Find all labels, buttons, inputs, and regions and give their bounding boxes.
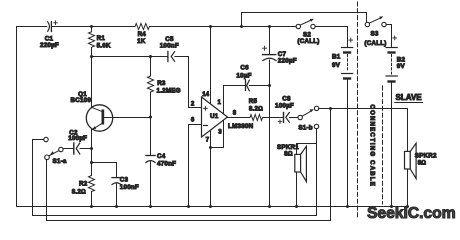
- svg-text:220µF: 220µF: [40, 42, 59, 49]
- svg-text:100nF: 100nF: [160, 43, 179, 50]
- node R2 ground: [90, 205, 93, 208]
- wire slave signal: [319, 109, 408, 152]
- battery B1 9V: [332, 38, 353, 206]
- connecting cable label: [369, 105, 376, 188]
- capacitor C1: [40, 21, 59, 49]
- switch S1-b: [298, 106, 319, 131]
- switch S1-a: [44, 137, 67, 165]
- wire S1-a top contact to line B: [33, 140, 317, 216]
- svg-text:(CALL): (CALL): [364, 40, 386, 47]
- node SPKR2 ground: [406, 205, 409, 208]
- resistor R1 5.6K: [89, 27, 111, 57]
- wire second rail to C5: [92, 56, 168, 58]
- node C3 ground: [115, 205, 118, 208]
- node slave junction: [329, 107, 332, 110]
- wire S1-a pole to line C: [47, 109, 331, 221]
- svg-text:R2: R2: [79, 181, 88, 188]
- svg-text:SPKR2: SPKR2: [415, 153, 437, 160]
- connecting cable dashed boundary right: [382, 86, 384, 204]
- svg-text:8Ω: 8Ω: [418, 160, 427, 167]
- pin 2 label: [191, 100, 195, 107]
- svg-text:U1: U1: [210, 113, 219, 120]
- node B2 ground: [390, 205, 393, 208]
- svg-text:S1-b: S1-b: [298, 125, 312, 132]
- svg-text:8.2Ω: 8.2Ω: [249, 105, 263, 112]
- svg-text:R5: R5: [249, 98, 258, 105]
- node C6 to C7 vertical: [268, 84, 271, 87]
- wire top rail left segment: [17, 26, 47, 28]
- svg-text:9V: 9V: [332, 62, 341, 69]
- wire output pin 8: [228, 117, 251, 119]
- wire pin 6 to ground: [189, 125, 202, 207]
- capacitor C8 100uF: [275, 95, 298, 123]
- wire top rail from C1 to R4: [52, 26, 135, 28]
- svg-text:R1: R1: [97, 35, 106, 42]
- svg-text:C8: C8: [282, 95, 291, 102]
- svg-text:C6: C6: [240, 65, 249, 72]
- pin 7 label: [206, 137, 210, 144]
- svg-text:1.2MEG: 1.2MEG: [157, 88, 181, 95]
- capacitor C3 100nF: [92, 163, 139, 207]
- pin 1 label: [218, 99, 222, 106]
- svg-text:10µF: 10µF: [236, 73, 251, 80]
- node emitter / C2: [90, 147, 93, 150]
- capacitor C5 100nF: [160, 36, 179, 62]
- pin 8 label: [233, 109, 237, 116]
- svg-text:B1: B1: [332, 53, 341, 60]
- pin 3 label: [218, 128, 222, 135]
- node B1 ground: [346, 205, 349, 208]
- svg-text:SeekIC.com: SeekIC.com: [367, 205, 456, 222]
- wire call riser to S3: [242, 13, 367, 27]
- wire C5 to pin2 corner and down to pin 2: [175, 57, 202, 108]
- node R3 top: [149, 55, 152, 58]
- svg-text:CONNECTING CABLE: CONNECTING CABLE: [369, 105, 376, 188]
- svg-text:8: 8: [233, 109, 237, 116]
- connecting cable dashed boundary left: [357, 2, 359, 219]
- wire pin 1 riser: [224, 86, 245, 115]
- wire R5 to C8: [263, 117, 283, 119]
- svg-text:1: 1: [218, 99, 222, 106]
- node Q1 base / R3 / C4: [149, 116, 152, 119]
- wire S2 to B1: [315, 27, 347, 47]
- svg-text:LM380N: LM380N: [228, 123, 254, 130]
- wire pin 3 to pin 7: [211, 121, 224, 148]
- pin 6 label: [191, 116, 195, 123]
- transistor Q1 BC109: [71, 57, 113, 149]
- SLAVE label: [395, 93, 423, 102]
- capacitor C4 470nF: [146, 117, 176, 207]
- svg-text:BC109: BC109: [71, 97, 92, 104]
- svg-text:100µF: 100µF: [68, 135, 87, 142]
- switch S3 (CALL): [364, 16, 386, 47]
- switch S2 (CALL): [296, 19, 319, 45]
- node riser top rail: [240, 25, 243, 28]
- svg-text:8.2Ω: 8.2Ω: [72, 189, 86, 196]
- svg-text:S3: S3: [370, 30, 378, 37]
- svg-text:14: 14: [202, 91, 209, 98]
- svg-text:C3: C3: [120, 177, 129, 184]
- battery B2 9V: [386, 36, 406, 207]
- resistor R2 8.2 ohm: [72, 149, 95, 207]
- node C3 branch: [90, 161, 93, 164]
- svg-text:9V: 9V: [397, 63, 406, 70]
- svg-text:100nF: 100nF: [120, 184, 139, 191]
- wire pin 7 to ground: [210, 131, 212, 207]
- svg-text:2: 2: [191, 100, 195, 107]
- node R1 top: [90, 25, 93, 28]
- node pins 3-7: [209, 146, 212, 149]
- svg-text:5.6K: 5.6K: [97, 42, 111, 49]
- SeekIC.com watermark: [367, 205, 456, 222]
- svg-text:7: 7: [206, 137, 210, 144]
- wire Q1 base to node: [104, 117, 150, 119]
- node pin7 ground: [209, 205, 212, 208]
- resistor R4 1K: [135, 24, 149, 45]
- wire S1-b lower contact down: [316, 129, 318, 216]
- svg-text:100µF: 100µF: [275, 103, 294, 110]
- resistor R5 8.2 ohm: [249, 98, 263, 120]
- capacitor C7 220uF: [263, 27, 297, 207]
- wire pin 14 to top rail: [210, 27, 212, 104]
- svg-text:8Ω: 8Ω: [284, 150, 293, 157]
- wire left border: [16, 27, 18, 207]
- node SPKR1 ground: [295, 205, 298, 208]
- node C4 ground: [149, 205, 152, 208]
- speaker SPKR1 8 ohm: [277, 144, 306, 207]
- op-amp U1 LM380N: [202, 97, 254, 137]
- svg-text:470nF: 470nF: [157, 161, 176, 168]
- wire top rail from R4 to S2: [150, 26, 297, 28]
- resistor R3 1.2MEG: [148, 57, 181, 118]
- capacitor C2 100uF: [63, 129, 91, 154]
- node R1 bottom / collector rail: [90, 55, 93, 58]
- svg-text:S1-a: S1-a: [53, 158, 67, 165]
- wire SPKR1 feed: [297, 144, 317, 155]
- svg-text:1K: 1K: [137, 38, 146, 45]
- node C7 top: [268, 25, 271, 28]
- svg-text:R3: R3: [157, 80, 166, 87]
- svg-text:C4: C4: [157, 153, 166, 160]
- node pin14 top: [209, 25, 212, 28]
- speaker SPKR2 8 ohm: [405, 143, 438, 206]
- capacitor C6 10uF: [236, 65, 269, 91]
- node C7 ground: [268, 205, 271, 208]
- svg-text:220µF: 220µF: [278, 58, 297, 65]
- svg-text:SLAVE: SLAVE: [396, 93, 423, 102]
- svg-text:6: 6: [191, 116, 195, 123]
- wire bottom ground rail: [17, 206, 408, 208]
- pin 14 label: [202, 91, 209, 98]
- wire S3 to B2: [386, 25, 391, 48]
- node pin6 ground: [187, 205, 190, 208]
- svg-text:3: 3: [218, 128, 222, 135]
- svg-text:(CALL): (CALL): [297, 38, 319, 45]
